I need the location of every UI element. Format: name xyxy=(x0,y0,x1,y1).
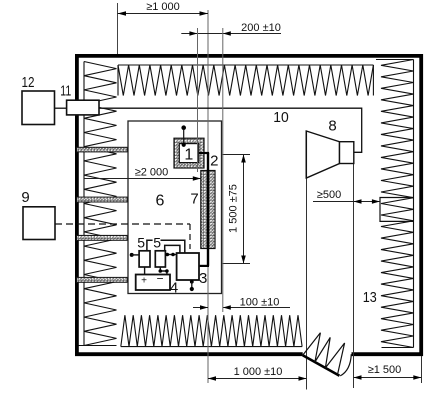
svg-text:−: − xyxy=(156,272,163,286)
battery box 4 xyxy=(136,275,170,291)
shielded room outer wall top xyxy=(75,54,423,58)
dimension 1000 +-10 bottom xyxy=(208,366,307,381)
dimension extension line x=197.4 xyxy=(197,28,199,172)
shielded room outer wall right xyxy=(419,54,423,356)
link 12 to 11 xyxy=(55,107,67,109)
monitor box 3 xyxy=(177,253,199,280)
svg-text:5: 5 xyxy=(153,235,161,251)
inner test volume boundary xyxy=(128,121,222,294)
wire from 5a top to label bracket xyxy=(147,240,153,251)
controller box 9 xyxy=(23,207,55,240)
line 2 elbow to box 3 xyxy=(199,265,209,267)
door panel (open) xyxy=(303,355,340,376)
dimension extension line x=353.6 below horn waveguide xyxy=(353,164,355,389)
svg-text:12: 12 xyxy=(22,74,35,91)
wire from label area into box 3 top xyxy=(161,240,185,253)
svg-text:4: 4 xyxy=(170,280,178,297)
bottom absorber lining xyxy=(121,315,302,346)
svg-text:11: 11 xyxy=(60,83,71,100)
svg-text:≥2 000: ≥2 000 xyxy=(135,167,169,179)
top absorber lining xyxy=(118,65,373,96)
horn antenna 8 xyxy=(306,131,354,178)
probe antenna dot xyxy=(181,125,186,130)
dimension >=1500 bottom right xyxy=(354,364,422,380)
probe inner dot xyxy=(182,143,186,147)
svg-text:10: 10 xyxy=(273,109,289,126)
bulkhead connector 11 xyxy=(67,100,99,115)
svg-text:≥1 500: ≥1 500 xyxy=(368,364,402,376)
amplifier box 12 xyxy=(22,91,55,125)
dimension 200 +-10 top xyxy=(181,22,281,36)
dimension extension line x=117.5 above wall xyxy=(117,3,119,54)
svg-text:200 ±10: 200 ±10 xyxy=(241,22,281,34)
dimension >=500 xyxy=(313,189,380,204)
wire 5b to 3 with dots xyxy=(165,254,176,256)
svg-text:13: 13 xyxy=(363,289,377,306)
dimension extension line x=208 full height xyxy=(207,10,209,383)
svg-text:9: 9 xyxy=(21,189,29,206)
svg-text:8: 8 xyxy=(328,118,336,135)
svg-text:7: 7 xyxy=(190,191,198,208)
field probe 1 inner box xyxy=(179,144,198,163)
dimension extension line x=306.4 below horn xyxy=(306,178,308,390)
wire 5b down to battery 4 xyxy=(160,267,167,275)
svg-text:1 500 ±75: 1 500 ±75 xyxy=(228,184,240,233)
charger box 5a xyxy=(139,251,150,267)
svg-text:1: 1 xyxy=(184,147,193,164)
dimension 100 +-10 xyxy=(193,296,290,309)
shielded room outer wall bottom-right segment xyxy=(352,352,424,356)
shielded room outer wall bottom-left segment xyxy=(75,352,303,356)
field probe 1 hatched frame xyxy=(174,138,204,168)
penetration panel strip 1 on left wall xyxy=(77,147,128,152)
svg-text:1 000 ±10: 1 000 ±10 xyxy=(234,366,283,378)
svg-text:3: 3 xyxy=(199,270,207,287)
left absorber lining xyxy=(79,62,117,346)
wire from 5b top-right into box 3 top xyxy=(165,245,180,253)
shielded room outer wall left xyxy=(75,54,79,356)
dimension >=1000 top xyxy=(118,1,209,16)
wire with terminal dot into 5a xyxy=(130,253,134,257)
svg-text:5: 5 xyxy=(137,235,145,251)
dashed remote link drop xyxy=(189,224,191,249)
horn mouth line xyxy=(305,131,307,178)
box 3 ground stem dots xyxy=(190,280,194,284)
charger box 5b xyxy=(155,251,165,267)
dimension >=2000 xyxy=(84,167,201,181)
svg-text:≥1 000: ≥1 000 xyxy=(146,1,180,13)
dimension extension line x=223.6 xyxy=(222,28,224,312)
dimension 1500 +-75 vertical xyxy=(222,155,250,264)
probe link to line 2 xyxy=(199,152,209,154)
svg-text:2: 2 xyxy=(210,153,218,170)
svg-text:+: + xyxy=(141,276,147,287)
dashed remote link from 9 xyxy=(55,223,190,225)
svg-text:≥500: ≥500 xyxy=(317,189,341,201)
wire 5a down to battery 4 xyxy=(144,267,146,275)
EUT hatched bar 7 xyxy=(201,171,215,249)
penetration panel strip 3 on left wall xyxy=(77,235,128,240)
reference box on right absorber xyxy=(380,198,414,222)
penetration panel strip 2 on left wall xyxy=(77,197,128,202)
penetration panel strip 4 on left wall xyxy=(77,277,128,282)
right absorber lining xyxy=(376,60,414,348)
probe antenna stem xyxy=(183,129,185,145)
uniform field plane line 2 xyxy=(207,153,209,266)
dimension extension line x=421.5 below wall xyxy=(421,356,423,383)
door swing arc xyxy=(340,354,351,376)
svg-text:100 ±10: 100 ±10 xyxy=(240,296,280,308)
door absorber wedges xyxy=(303,333,345,375)
svg-text:6: 6 xyxy=(156,193,165,210)
feed line 10 from bulkhead to antenna xyxy=(99,108,362,152)
